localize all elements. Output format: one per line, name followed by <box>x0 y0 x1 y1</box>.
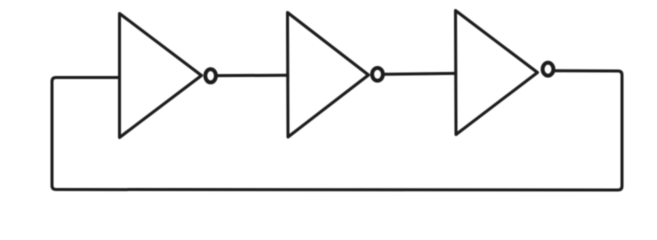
inverter U2 (triangle) <box>288 13 369 138</box>
inverter U3 (triangle) <box>456 11 538 135</box>
wire: feedback bottom horizontal <box>56 186 622 190</box>
wire: feedback left vertical <box>52 82 56 190</box>
wire: inverter U3 output to right feedback corner <box>556 69 619 72</box>
inverter U1 (triangle) <box>120 14 202 138</box>
wire: U1 output to U2 input <box>218 74 288 77</box>
inverter U2 output bubble <box>372 68 383 81</box>
wire: input to inverter U1 (top-left feedback corner) <box>52 78 120 82</box>
wire: U2 output to U3 input <box>385 72 456 76</box>
inverter U1 output bubble <box>205 69 216 82</box>
inverter U3 output bubble <box>543 63 554 76</box>
wire: feedback right vertical <box>618 71 622 186</box>
